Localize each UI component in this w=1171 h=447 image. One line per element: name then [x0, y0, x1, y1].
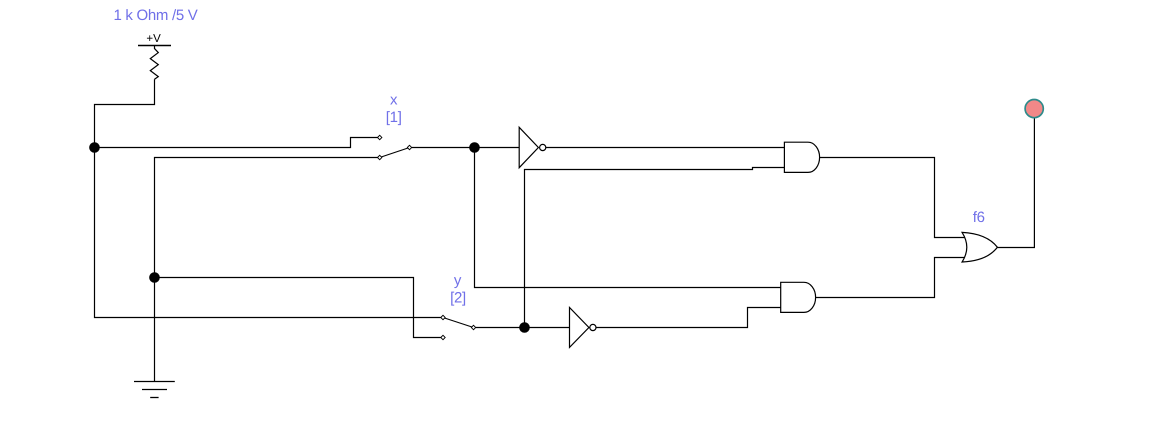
svg-text:+V: +V [146, 33, 161, 45]
svg-text:1 k Ohm /5 V: 1 k Ohm /5 V [114, 7, 198, 24]
svg-text:[2]: [2] [450, 289, 466, 306]
node C junction dot [469, 142, 480, 153]
wire node A to switch x upper throw [95, 138, 378, 148]
wire U3 output to OR gate U5 top input [820, 158, 966, 238]
inverter U2 [570, 308, 597, 348]
node D junction dot [519, 322, 530, 333]
wire switch x lower throw to node B [155, 158, 378, 278]
svg-text:y: y [454, 272, 462, 289]
wire node B to switch y lower throw [155, 278, 441, 338]
wire U4 output to OR gate U5 bottom input [816, 258, 966, 298]
svg-text:x: x [390, 91, 398, 108]
wire U1 output to AND gate U3 input A [546, 147, 785, 149]
node B junction dot [149, 272, 160, 283]
OR gate U5 [962, 232, 997, 262]
LED probe (red indicator) [1025, 100, 1043, 118]
switch x (SPDT), blade to lower throw [378, 135, 412, 159]
power supply +V symbol [138, 33, 171, 49]
svg-text:[1]: [1] [386, 109, 402, 126]
resistor R1 (1 kOhm) [150, 49, 158, 80]
node A junction dot [89, 142, 100, 153]
AND gate U4 [781, 282, 816, 312]
wire node D up to AND gate U3 input B [525, 168, 785, 328]
switch y (SPDT), blade to upper throw [441, 315, 476, 339]
wire node A down to switch y upper throw [95, 148, 441, 318]
wire switch y pole to inverter U2 input [476, 327, 570, 329]
wire node B to ground [154, 278, 156, 382]
wire switch x pole to inverter U1 input [412, 147, 520, 149]
ground [134, 382, 175, 398]
wire resistor bottom to node A [95, 79, 155, 147]
wire OR output to probe [997, 119, 1034, 248]
AND gate U3 [784, 142, 819, 172]
wire node C down to AND gate U4 input A [475, 148, 781, 288]
inverter U1 [519, 127, 546, 167]
svg-text:f6: f6 [973, 209, 985, 226]
wire U2 output to AND gate U4 input B [596, 308, 781, 328]
